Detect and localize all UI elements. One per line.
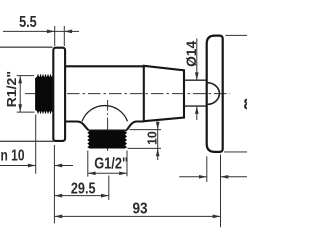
- stem top line: [184, 79, 207, 81]
- handle knob: [207, 36, 223, 152]
- dia 14 dim line with arrows: [196, 39, 198, 81]
- svg-text:8: 8: [244, 96, 248, 113]
- inlet thread R1/2: [36, 77, 54, 111]
- R1/2 dim extension lines: [17, 75, 34, 77]
- G1/2 dim line, inside arrows pointing out: [88, 172, 127, 174]
- G1/2 ext lines: [87, 151, 89, 177]
- hub boss half-circle: [207, 83, 219, 105]
- outlet centerline: [107, 100, 109, 151]
- leader line top right: [225, 34, 247, 36]
- small right dim (cropped): [179, 176, 207, 178]
- 5.5 dim extension lines: [54, 26, 56, 46]
- main axis centerline: [25, 93, 230, 95]
- 10 dim line, outside arrows: [157, 122, 159, 160]
- 29.5 dim: [108, 176, 110, 201]
- leader line bottom right: [224, 151, 247, 153]
- wall line top: [0, 46, 53, 48]
- flange (escutcheon): [53, 48, 65, 141]
- body tube bottom right: [127, 122, 144, 131]
- dome arc over outlet: [82, 106, 128, 122]
- svg-text:5.5: 5.5: [19, 14, 37, 31]
- outlet thread top line: [88, 129, 127, 131]
- svg-text:10: 10: [144, 131, 159, 145]
- svg-text:Ø14: Ø14: [184, 40, 199, 66]
- svg-text:93: 93: [133, 201, 148, 218]
- min 10 dim: [0, 165, 36, 167]
- bonnet cone: [144, 66, 184, 121]
- 10 dim ext lines: [130, 129, 162, 131]
- circuit-free mechanical drawing of wall-mounted valve: [0, 0, 247, 247]
- ext lines small dim: [206, 156, 208, 182]
- R1/2 dim line with arrows: [19, 76, 21, 113]
- body tube bottom left: [65, 122, 89, 131]
- flange-back extension line (min10 / 29.5 / 93): [53, 145, 55, 223]
- stem bottom line: [184, 105, 207, 107]
- svg-text:min 10: min 10: [0, 148, 25, 165]
- 5.5 dim line, outside arrows: [3, 30, 64, 32]
- 93 dim: [54, 215, 220, 217]
- body tube top: [65, 65, 144, 67]
- wall line bottom: [0, 140, 54, 142]
- outlet thread G1/2: [89, 130, 125, 148]
- svg-text:R1/2": R1/2": [4, 71, 19, 108]
- svg-text:29.5: 29.5: [71, 181, 96, 198]
- svg-text:G1/2": G1/2": [94, 156, 128, 173]
